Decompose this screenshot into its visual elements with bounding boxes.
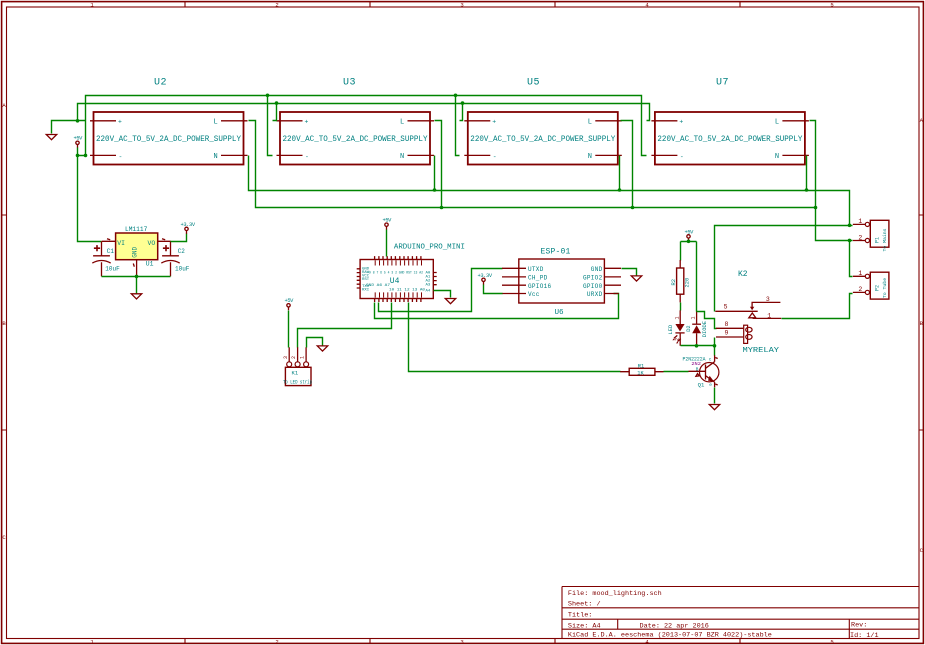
power flag +3.3V at ESP Vcc [478,273,493,285]
K2 coil [744,325,748,343]
svg-text:10uF: 10uF [105,265,120,272]
svg-text:3: 3 [460,639,463,645]
svg-text:U1: U1 [146,260,154,267]
wire: coil pin9 junction down to Q1 collector [714,338,716,356]
svg-text:ARDUINO_PRO_MINI: ARDUINO_PRO_MINI [394,244,465,252]
svg-text:3: 3 [283,356,289,359]
svg-text:9 8 7 6 5 4 3 2 GND RST 13 A2: 9 8 7 6 5 4 3 2 GND RST 13 A2 [369,271,423,275]
wifi module U6 ESP-01 [502,247,621,317]
svg-text:File: mood_lighting.sch: File: mood_lighting.sch [568,590,662,598]
ground below Q1 [709,405,719,410]
ground right of U6 [631,276,641,281]
resistor R2 220 [671,260,690,302]
svg-text:MYRELAY: MYRELAY [743,347,780,355]
wire: regulator ground rail [102,277,171,294]
svg-text:GND: GND [591,266,603,273]
svg-text:RXI: RXI [362,288,369,292]
svg-text:B: B [696,368,699,373]
power supply U2 [90,112,248,165]
svg-text:5: 5 [724,303,728,310]
U4 top pin stubs + numbers [375,256,422,265]
K2 blade [749,313,756,318]
svg-text:VO: VO [148,240,156,247]
svg-text:A4: A4 [426,289,431,293]
svg-text:c: c [709,357,712,362]
wire: Q1 emitter to ground [714,388,716,404]
wire: relay common row to P1 pin1 [715,226,853,312]
diode D1 [691,311,709,345]
svg-text:1: 1 [674,316,680,319]
svg-text:R1: R1 [638,363,644,369]
power supply U5 [464,112,622,165]
connector P1 [853,218,889,247]
svg-text:Rev:: Rev: [851,621,867,629]
resistor R1 1K [620,363,663,376]
svg-text:R2: R2 [671,279,677,285]
title block [562,587,919,641]
wire: N chain [249,156,850,226]
svg-text:2: 2 [275,1,278,8]
svg-text:1K: 1K [637,370,644,376]
wire: +5V to U4 top pin [386,230,388,257]
wire: +5V rail down to LM1117 VI [78,156,102,242]
power flag +5V at U2 minus [74,136,84,148]
svg-text:10 11 12 13 A0: 10 11 12 13 A0 [389,289,426,293]
svg-text:ESP-01: ESP-01 [541,247,571,256]
frame row letters left [2,102,6,541]
U6 right pin stubs [604,268,621,293]
svg-text:220: 220 [685,278,691,288]
U4 bottom pin stubs + numbers [375,292,422,302]
wire: R1 to Q1 base [664,371,689,373]
svg-text:GND: GND [132,247,139,258]
wire: U5 N drop [619,156,621,191]
wire: U3 N drop [434,156,436,191]
wire: L chain [249,121,816,208]
U4 left pin stubs [357,269,360,288]
svg-text:K2: K2 [738,270,748,279]
svg-text:DIODE: DIODE [702,321,708,337]
wire: +5V flag to minus pin wire [78,148,86,156]
connector P2 [853,270,889,299]
svg-text:To Tube: To Tube [882,278,888,298]
wire: U4 pin to R1 (base drive) [409,303,621,372]
svg-text:5: 5 [830,1,833,8]
wire: U2 plus pin to ground [52,121,86,134]
svg-text:1: 1 [691,316,697,319]
wire: U5 L drop [621,121,633,208]
svg-text:U2: U2 [154,78,167,89]
frame column numbers bottom [90,639,833,645]
power flag +5V above U4 [383,218,393,230]
svg-text:2: 2 [674,338,680,341]
wire: +3.3V to Vcc [484,285,503,294]
wire: U4 pin to ESP URXD (long bottom wire) [375,294,619,319]
wire: U4 right pin to ground [434,291,451,298]
svg-text:1: 1 [300,356,306,359]
svg-text:e: e [709,383,712,388]
svg-text:U7: U7 [716,78,729,89]
svg-text:Id: 1/1: Id: 1/1 [850,632,879,640]
svg-text:To LED strip: To LED strip [283,379,312,385]
capacitor C2 [161,241,179,276]
svg-text:VI: VI [117,240,125,247]
svg-text:P2: P2 [875,285,881,291]
ground below regulator [131,294,141,299]
svg-text:P1: P1 [875,237,881,243]
K2 contact pin 1 (NO) [753,317,782,319]
U4 right pin stubs [433,273,436,285]
svg-text:Sheet: /: Sheet: / [568,601,601,609]
wire: VO to +3.3V flag [171,234,187,242]
K2 coil pins 8,9 [716,328,743,337]
svg-text:LED: LED [668,325,674,335]
relay K2 [715,270,781,355]
wire: U7 N drop [806,156,808,191]
svg-text:K1: K1 [292,369,299,376]
wire: ESP GND pin to ground [622,269,637,276]
svg-text:1: 1 [767,313,771,320]
connector K1 To LED strip [283,347,312,385]
svg-text:9: 9 [725,330,729,337]
wire: R2 to LED anode [680,303,682,311]
svg-text:C2: C2 [178,248,186,255]
wire: +5V rail to R2 and D1 [681,242,697,312]
power flag +5V at K1 [285,298,295,310]
wire: D1 cathode staircase to relay coil pin 8 [697,312,717,329]
wire: U5 minus drop [456,96,460,156]
svg-text:GPIO0: GPIO0 [583,283,603,290]
svg-text:Vcc: Vcc [528,291,540,298]
wire: U3 minus drop [268,96,273,156]
transistor Q1 P2N2222A [683,355,719,388]
wire: U3 L drop [435,121,442,208]
svg-text:2N2: 2N2 [691,361,701,367]
svg-text:D2: D2 [686,325,692,331]
ground right of K1 [317,346,327,351]
capacitor C1 [92,241,110,276]
wire: P2 pin2 to relay NO contact [782,294,853,319]
K2 contact pin 5 (common) [715,310,757,312]
junction dots on buses [266,94,270,98]
svg-text:U3: U3 [343,78,356,89]
U6 pin names [528,266,603,298]
svg-text:To Mains: To Mains [882,228,888,251]
svg-text:U5: U5 [527,78,540,89]
ground at U2 plus [46,135,56,140]
svg-text:2: 2 [275,639,278,645]
svg-text:LM1117: LM1117 [125,226,148,233]
svg-text:Date: 22 apr 2016: Date: 22 apr 2016 [640,622,709,630]
svg-text:GND A6 A7: GND A6 A7 [366,284,391,288]
svg-text:3: 3 [460,1,463,8]
svg-text:Q1: Q1 [698,382,705,389]
regulator U1 LM1117 [102,226,171,277]
svg-text:10uF: 10uF [175,265,190,272]
K2 contact pin 3 [752,302,780,307]
svg-text:5: 5 [830,639,833,645]
svg-text:CH_PD: CH_PD [528,275,548,282]
LED D2 [668,310,692,345]
power supply U3 [277,112,435,165]
svg-text:Title:: Title: [568,612,592,620]
svg-text:RST: RST [362,278,370,282]
svg-text:GPIO16: GPIO16 [528,283,552,290]
wire: +5V to K1 pin3 [288,311,290,348]
microcontroller U4 ARDUINO_PRO_MINI [357,244,465,303]
svg-text:U4: U4 [390,277,400,286]
svg-text:C1: C1 [107,248,115,255]
svg-text:3: 3 [766,296,770,303]
wire: U5 plus drop [460,104,463,121]
svg-text:KiCad E.D.A. eeschema (2013-0: KiCad E.D.A. eeschema (2013-07-07 BZR 40… [568,632,772,640]
ground right of U4 [445,299,455,304]
wire: LED/D1 cathodes to Q1 collector rail [681,345,715,347]
svg-text:Size: A4: Size: A4 [568,622,601,630]
power flag +5V at relay driver [685,229,695,241]
svg-text:URXD: URXD [587,291,603,298]
U6 left pin stubs [502,268,526,293]
svg-text:A3: A3 [426,284,431,288]
wire: U4 pin to K1 pin2 [298,303,392,348]
junction dot plus drop [76,119,80,123]
svg-text:GPIO2: GPIO2 [583,275,603,282]
power flag +3.3V at regulator output [181,222,196,234]
wire: K1 pin1 to ground [307,338,323,348]
wire: U7 L drop down to P1 pin2 row [810,121,853,241]
power supply U7 [651,112,809,165]
wire: P2 pin1 from L net [850,241,853,277]
svg-text:8: 8 [725,321,729,328]
svg-text:2: 2 [291,356,297,359]
frame column numbers top [90,1,833,8]
U4 inner pin-name texts [362,268,431,294]
svg-text:UTXD: UTXD [528,266,544,273]
wire: plus bus (second) [78,104,650,121]
wire: minus bus (top) [86,96,647,156]
svg-text:U6: U6 [555,309,565,317]
wire: U4 pin to ESP UTXD [379,269,503,312]
wire: U3 plus drop [273,104,277,121]
frame row letters right [920,117,924,554]
